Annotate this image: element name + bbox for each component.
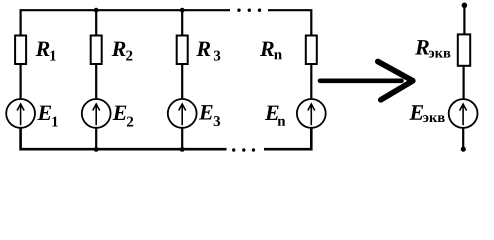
- node junction top branch2: [94, 8, 99, 13]
- node terminal top equivalent: [462, 3, 468, 9]
- node junction bottom branch2: [94, 147, 99, 152]
- label R3: [196, 42, 210, 56]
- node junction bottom branch3: [180, 147, 185, 152]
- ellipsis dots bottom bus: [232, 148, 255, 151]
- wire equivalent middle: [463, 66, 465, 99]
- label E2: [113, 106, 127, 120]
- source E2: [82, 99, 111, 128]
- wire bottom bus right segment: [264, 128, 311, 149]
- resistor Rekv: [458, 34, 470, 65]
- label E3: [199, 105, 213, 119]
- wire bottom bus left segment: [21, 128, 227, 149]
- equivalence arrow: [320, 62, 413, 100]
- source E1: [6, 99, 35, 128]
- ellipsis dots top bus: [237, 9, 261, 12]
- wire equivalent top: [463, 5, 465, 34]
- label R1: [36, 42, 50, 56]
- resistor R1: [15, 36, 26, 65]
- wire branch3 middle: [181, 65, 183, 99]
- resistor Rn: [306, 36, 317, 65]
- node junction top branch3: [180, 8, 185, 13]
- wire branch4 middle: [310, 65, 312, 99]
- node terminal bottom equivalent: [461, 147, 466, 152]
- resistor R3: [177, 36, 188, 65]
- wire branch2 bottom drop: [95, 128, 97, 149]
- label En: [265, 106, 279, 120]
- label R_ekv: [415, 40, 429, 54]
- source En: [297, 99, 326, 128]
- label Rn: [260, 42, 274, 56]
- wire branch3 bottom drop: [181, 128, 183, 149]
- resistor R2: [91, 36, 102, 65]
- wire branch3 top drop: [181, 10, 183, 34]
- wire branch1 middle: [20, 65, 22, 99]
- label E1: [37, 106, 51, 120]
- label R2: [112, 42, 126, 56]
- wire branch2 top drop: [95, 10, 97, 34]
- wire branch2 middle: [95, 65, 97, 99]
- source Eekv: [449, 99, 478, 128]
- source E3: [168, 99, 197, 128]
- wire equivalent bottom: [462, 128, 464, 149]
- label E_ekv: [409, 105, 423, 119]
- wire top bus right segment: [268, 10, 311, 34]
- wire top bus left segment: [21, 10, 230, 34]
